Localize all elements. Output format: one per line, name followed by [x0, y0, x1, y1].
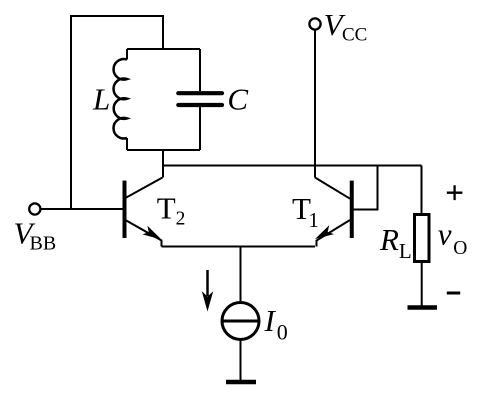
svg-text:BB: BB — [30, 233, 57, 255]
svg-text:2: 2 — [176, 208, 186, 229]
svg-text:v: v — [438, 217, 452, 252]
svg-text:0: 0 — [277, 320, 288, 345]
svg-text:L: L — [399, 239, 412, 263]
svg-text:R: R — [379, 222, 399, 257]
svg-text:T: T — [157, 191, 176, 226]
svg-text:I: I — [264, 303, 277, 338]
svg-text:O: O — [453, 238, 467, 259]
svg-text:L: L — [92, 82, 110, 117]
svg-text:CC: CC — [342, 25, 367, 46]
svg-text:1: 1 — [308, 208, 319, 232]
svg-text:C: C — [227, 82, 248, 117]
